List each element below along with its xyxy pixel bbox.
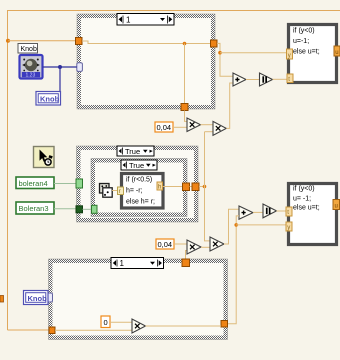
formula node 3 [122,174,164,209]
absolute value U4 [263,204,277,218]
wire dice to formula node 3 r [112,190,118,192]
wire junction down to bottom tunnel [184,44,186,104]
tunnel formula1 u [334,46,340,56]
svg-text:else h= r;: else h= r; [126,199,155,206]
tunnel formula2 y [286,222,292,231]
multiply B1 [213,121,226,135]
case structure middle inner (frame) [91,159,187,217]
wire main vertical into B1 bottom input [205,131,214,133]
wire junction to formula node 2 input y [236,224,286,226]
constant 0 [101,316,110,328]
case selector middle outer "True" [117,146,154,156]
wire main vertical [205,132,211,241]
add U3 [239,206,253,219]
wire feedback-loop bottom run to lower loop left tunnel [8,329,50,331]
svg-text:1: 1 [120,259,125,268]
wire bottom tunnel down to multiply A1 top input [185,111,188,122]
node junction inside upper case [183,42,187,46]
node junction right of upper case [218,51,222,55]
case structure middle outer (frame) [77,146,199,222]
tunnel lower-case top [182,259,190,267]
tunnel formula3 h [157,182,163,191]
label boleran4 [16,177,54,189]
formula node 1 [289,25,337,83]
wire junction to formula node 1 input y [220,52,287,54]
wire outer tunnel to main junction [199,186,205,188]
label Knob (control caption) [18,44,38,54]
case structure lower (frame) [49,259,228,340]
wire h out to inner tunnel [163,186,183,188]
local variable Knob [36,92,61,106]
tunnel formula1 y [287,49,293,59]
tunnel formula3 r [118,187,124,195]
svg-text:True: True [125,147,140,156]
wire abs1 to formula node 1 input t [273,78,288,80]
multiply A2 [187,240,201,254]
wire boleran4 to outer selector terminal [54,183,76,185]
tunnel lower-case left [49,327,55,334]
wire Boleran3 to outer tunnel [54,208,76,210]
wire between tunnels [190,186,193,188]
tunnel middle inner right [183,183,190,191]
node junction top-left [6,39,10,43]
multiply B2 [210,237,224,251]
wire 0 to multiply [110,321,132,323]
tunnel lower-case right [221,321,228,328]
tunnel lower-case left blue (knob in) [47,293,53,302]
svg-text:y: y [288,53,291,59]
tunnel formula2 t [286,207,292,216]
svg-text:Knob: Knob [40,95,60,104]
svg-text:if (y<0): if (y<0) [293,28,315,35]
wire constant to multiply A1 [173,126,187,128]
wire add1 to abs1 [246,79,260,81]
label Boleran3 [16,202,54,214]
svg-text:else u=t;: else u=t; [293,205,320,212]
random number dice [100,184,113,198]
wire A2 to B2 [201,246,210,248]
case selector upper "1" [117,14,174,26]
svg-text:h= -r;: h= -r; [126,188,143,195]
wire lower-frame top tunnel up to A2 bottom input [186,251,188,259]
wire right tunnel to junction [217,43,233,76]
svg-text:else u=t;: else u=t; [293,49,320,56]
svg-text:u: u [335,50,338,56]
node junction lower [234,223,238,227]
tunnel upper-case left blue (knob in) [77,63,83,72]
svg-text:h: h [158,185,161,191]
svg-text:Knob: Knob [21,46,37,53]
svg-text:True: True [129,161,144,170]
svg-text:if (r<0.5): if (r<0.5) [126,177,152,184]
local variable Knob (lower) [24,291,49,305]
svg-text:1: 1 [126,16,131,25]
svg-text:if (y<0): if (y<0) [293,186,315,193]
wire lower right tunnel up to add2 bottom input [228,216,240,324]
svg-text:1.23: 1.23 [26,73,36,79]
case selector lower "1" [111,258,164,269]
svg-text:0,04: 0,04 [157,123,172,132]
formula node 2 [289,184,337,245]
tunnel middle outer right [192,183,199,191]
control terminal Knob (knob icon) [20,55,43,79]
selector terminal middle inner [92,205,98,213]
wire add2 to abs2 [253,211,263,213]
wire inside lower case from left tunnel [55,329,132,331]
svg-text:u= -1;: u= -1; [293,196,311,203]
multiply U5 [132,319,146,333]
svg-text:r: r [119,189,121,195]
tunnel upper-case bottom [181,104,188,111]
svg-text:Knob: Knob [28,294,48,303]
multiply A1 [187,118,201,132]
svg-text:0,04: 0,04 [158,240,173,249]
tunnel upper-case right [211,40,218,47]
selector terminal middle outer [76,179,83,188]
absolute value U2 [260,73,273,86]
tunnel upper-case left [76,38,83,45]
add U1 [233,73,246,86]
wire A1 to B1 [201,124,214,126]
svg-text:boleran4: boleran4 [19,179,48,188]
case structure upper (frame) [77,14,215,109]
wire outer tunnel to inner selector terminal [83,208,92,210]
wire abs2 to formula node 2 input t [277,210,287,212]
wire B1 up to add1 bottom input [226,83,233,128]
node main junction [203,185,207,189]
svg-text:u=-1;: u=-1; [293,38,309,45]
wire B2 up to add2 top input [224,209,239,244]
wire junction down to local variable [59,67,61,92]
icon wait-for-activity [34,147,55,168]
wire constant to multiply A2 [174,243,187,245]
constant 0,04 (lower) [156,239,174,249]
wire multiply to right tunnel [146,325,222,327]
constant 0,04 (upper) [155,122,173,132]
tunnel formula1 t [287,74,293,83]
svg-text:y: y [287,225,290,231]
wire branch to upper case left tunnel [8,40,76,42]
node junction knob wire [58,65,62,69]
svg-text:u: u [335,204,338,210]
case selector middle inner "True" [121,160,157,170]
tunnel formula2 u [333,200,340,210]
wire knob to tunnel (blue) [43,66,77,68]
node left-edge stub [0,296,4,303]
wire inside upper case [82,41,213,44]
svg-text:0: 0 [104,318,108,327]
svg-text:Boleran3: Boleran3 [19,204,49,213]
tunnel middle outer dark green [76,206,83,213]
